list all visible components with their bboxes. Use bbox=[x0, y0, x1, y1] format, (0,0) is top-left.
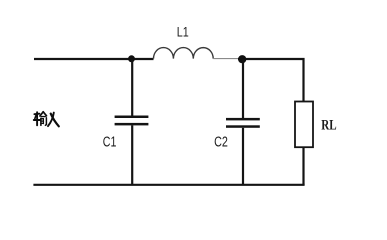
wire: node B to RL top corner bbox=[238, 59, 304, 102]
wire: top rail, input end to node A bbox=[34, 58, 154, 60]
svg-text:L1: L1 bbox=[177, 24, 189, 39]
capacitor C2: bottom plate bbox=[226, 125, 260, 128]
svg-text:C1: C1 bbox=[103, 133, 117, 150]
svg-text:C2: C2 bbox=[214, 133, 228, 150]
capacitor C1: top lead bbox=[131, 59, 133, 116]
glyph 输 : radical 车 bbox=[34, 113, 39, 116]
capacitor C2: top lead bbox=[242, 59, 244, 118]
capacitor C1: bottom lead bbox=[131, 125, 133, 185]
wire: L1 right lead (thin) to node B bbox=[213, 58, 239, 60]
resistor RL: bottom lead bbox=[302, 147, 304, 185]
glyph 输 : part 俞 roof bbox=[40, 112, 43, 116]
glyph 入 : right-falling stroke bbox=[51, 114, 59, 127]
capacitor C1: top plate bbox=[115, 116, 149, 119]
glyph 输 : part 俞 lower-left (月) bbox=[40, 118, 42, 125]
junction dot: node B bbox=[238, 55, 246, 63]
resistor RL: body box bbox=[295, 102, 313, 148]
label 输入 (input), hand-drawn glyphs bbox=[34, 112, 59, 127]
capacitor C2: top plate bbox=[226, 118, 260, 121]
junction dot: node A bbox=[128, 55, 135, 62]
glyph 入 : left-falling stroke bbox=[48, 113, 54, 127]
wire: bottom return rail bbox=[33, 184, 304, 186]
glyph 输 : part 俞 刂 bbox=[45, 118, 46, 126]
capacitor C2: bottom lead bbox=[242, 128, 244, 185]
inductor L1 (three humps) bbox=[154, 48, 214, 59]
svg-text:RL: RL bbox=[321, 118, 336, 134]
capacitor C1: bottom plate bbox=[115, 123, 149, 126]
